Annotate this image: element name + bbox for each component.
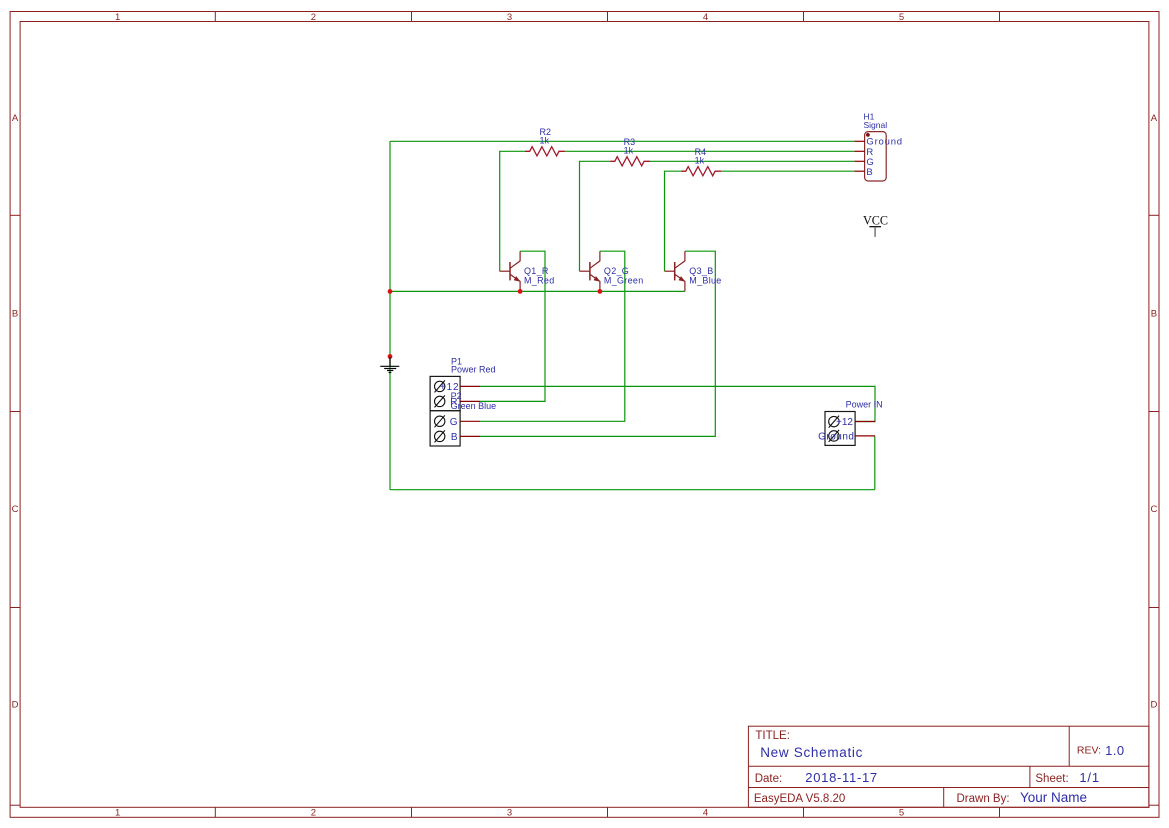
- junction dot Q1 emitter: [518, 289, 523, 294]
- svg-text:Date:: Date:: [755, 773, 783, 785]
- power symbol VCC: [863, 213, 888, 237]
- pin PowerIN.2 Ground: [818, 430, 875, 443]
- svg-text:VCC: VCC: [863, 213, 888, 227]
- resistor R4: [681, 167, 721, 176]
- resistor R2: [525, 147, 565, 156]
- svg-text:2: 2: [311, 808, 316, 819]
- svg-text:1k: 1k: [624, 146, 634, 156]
- svg-text:3: 3: [507, 12, 512, 23]
- svg-text:B: B: [12, 308, 18, 319]
- transistor Q3: [665, 251, 685, 291]
- svg-text:Power IN: Power IN: [846, 400, 883, 410]
- svg-text:D: D: [12, 699, 19, 710]
- svg-text:C: C: [1150, 504, 1157, 515]
- svg-text:Green Blue: Green Blue: [451, 401, 497, 411]
- pin H1.4 B: [854, 170, 864, 172]
- svg-text:M_Green: M_Green: [604, 275, 644, 285]
- wire G net: H1.G to R3: [650, 160, 854, 162]
- svg-text:A: A: [1151, 113, 1158, 124]
- svg-text:B: B: [1151, 308, 1157, 319]
- wire Ground net: bottom horizontal y=490: [390, 489, 875, 491]
- pin P1.1 +12: [435, 380, 481, 393]
- wire emitter rail y=291.4: [390, 290, 685, 292]
- wire B net: R4 to Q3 base: [665, 171, 682, 271]
- connector H1 Signal: [854, 111, 903, 181]
- connector Power IN (pins +12, Ground): [818, 400, 882, 446]
- pin PowerIN.1 +12: [829, 416, 875, 429]
- wire G net: R3 to Q2 base: [580, 161, 611, 271]
- svg-text:TITLE:: TITLE:: [755, 730, 790, 742]
- svg-text:P2: P2: [451, 391, 462, 401]
- svg-text:Drawn By:: Drawn By:: [957, 793, 1010, 805]
- svg-text:Q1_R: Q1_R: [524, 266, 549, 276]
- svg-text:Signal: Signal: [864, 120, 888, 130]
- svg-text:G: G: [450, 417, 458, 428]
- wire Q1 collector loop to P1 pin R: [480, 251, 545, 401]
- pin P1.2 R: [435, 395, 481, 408]
- svg-text:B: B: [451, 432, 458, 443]
- svg-text:4: 4: [703, 808, 708, 819]
- connector P1 Power Red (pins +12, R): [430, 357, 495, 411]
- svg-text:5: 5: [899, 12, 904, 23]
- wire Q3 collector loop to P1 pin B: [480, 251, 715, 436]
- svg-text:Your Name: Your Name: [1020, 790, 1087, 805]
- svg-text:1k: 1k: [695, 156, 705, 166]
- svg-text:5: 5: [899, 808, 904, 819]
- svg-text:1.0: 1.0: [1105, 743, 1125, 758]
- svg-text:A: A: [12, 113, 19, 124]
- transistor Q1: [500, 251, 520, 291]
- wire Ground net: right vertical to Power IN pin 2: [874, 436, 876, 490]
- svg-text:Ground: Ground: [818, 431, 854, 442]
- resistor R3: [610, 157, 650, 166]
- svg-text:EasyEDA V5.8.20: EasyEDA V5.8.20: [754, 793, 845, 805]
- wire Q2 collector loop to P1 pin G: [480, 251, 625, 421]
- svg-text:New Schematic: New Schematic: [760, 745, 863, 760]
- pin H1.1 Ground: [854, 140, 864, 142]
- pin P2.1 G: [435, 415, 481, 428]
- wire Ground net: H1.Ground to left vertical: [390, 140, 854, 142]
- pin H1.3 G: [854, 160, 864, 162]
- connector P2 Green Blue (pins G, B): [430, 391, 496, 446]
- wire Ground net: left vertical rail x=390: [389, 141, 391, 489]
- svg-text:M_Blue: M_Blue: [689, 275, 721, 285]
- svg-text:4: 4: [703, 12, 708, 23]
- svg-text:3: 3: [507, 808, 512, 819]
- wire R net: H1.R to R2: [565, 150, 855, 152]
- wire B net: H1.B to R4: [721, 170, 854, 172]
- svg-text:REV:: REV:: [1077, 745, 1101, 757]
- svg-text:B: B: [866, 167, 872, 178]
- wire +12 net: P1 pin 1 to Power IN pin 1: [480, 386, 875, 421]
- svg-text:+12: +12: [836, 417, 853, 428]
- svg-text:D: D: [1150, 699, 1157, 710]
- svg-text:1k: 1k: [540, 136, 550, 146]
- pin H1.2 R: [854, 150, 864, 152]
- svg-text:Sheet:: Sheet:: [1035, 773, 1068, 785]
- title block: [748, 726, 1149, 807]
- svg-text:1: 1: [115, 808, 120, 819]
- ground symbol: [380, 357, 399, 373]
- junction dot ground node: [388, 354, 393, 359]
- svg-text:2: 2: [311, 12, 316, 23]
- svg-text:Q2_G: Q2_G: [604, 266, 629, 276]
- svg-text:C: C: [12, 504, 19, 515]
- svg-text:2018-11-17: 2018-11-17: [805, 770, 878, 785]
- svg-text:M_Red: M_Red: [524, 275, 555, 285]
- svg-text:Power Red: Power Red: [451, 365, 496, 375]
- svg-text:1: 1: [115, 12, 120, 23]
- junction dot Q2 emitter: [598, 289, 603, 294]
- pin P2.2 B: [435, 430, 481, 443]
- transistor Q2: [580, 251, 600, 291]
- wire R net: R2 to Q1 base: [500, 151, 525, 271]
- svg-text:1/1: 1/1: [1079, 770, 1099, 785]
- junction dot node rail-left: [388, 289, 393, 294]
- svg-text:Q3_B: Q3_B: [689, 266, 713, 276]
